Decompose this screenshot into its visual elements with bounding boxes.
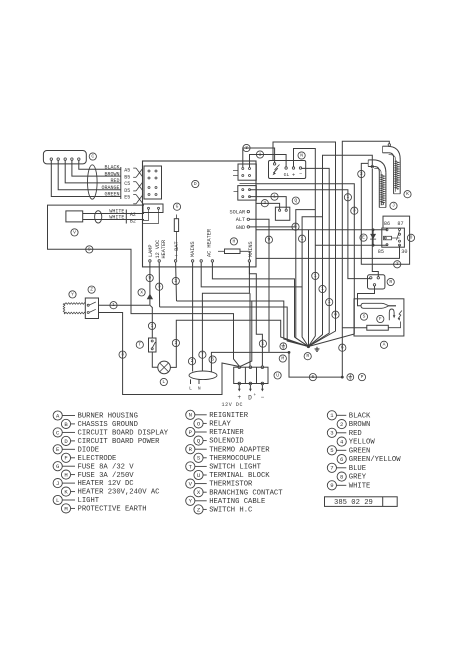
svg-text:THERMO ADAPTER: THERMO ADAPTER: [209, 446, 270, 454]
svg-text:R: R: [389, 279, 392, 285]
svg-text:9: 9: [148, 275, 151, 281]
svg-text:BURNER HOUSING: BURNER HOUSING: [78, 413, 138, 421]
svg-text:7: 7: [201, 352, 204, 358]
svg-text:ORANGE: ORANGE: [101, 185, 119, 191]
svg-text:F: F: [64, 455, 67, 462]
svg-text:GREEN: GREEN: [349, 447, 371, 455]
svg-text:T: T: [138, 342, 141, 348]
svg-text:+ BAT: + BAT: [174, 241, 180, 257]
svg-text:H: H: [233, 238, 236, 244]
svg-text:B2: B2: [130, 219, 136, 225]
svg-text:F: F: [379, 316, 382, 322]
svg-text:1: 1: [262, 340, 265, 346]
svg-text:GREEN: GREEN: [104, 192, 119, 198]
svg-text:85: 85: [378, 249, 384, 255]
svg-text:ALT: ALT: [236, 217, 245, 223]
svg-text:6: 6: [211, 356, 214, 362]
svg-text:H: H: [64, 472, 67, 479]
svg-text:3: 3: [158, 284, 161, 290]
svg-text:3: 3: [330, 430, 333, 437]
svg-text:M: M: [64, 505, 67, 512]
svg-text:BLACK: BLACK: [104, 165, 119, 171]
svg-text:6: 6: [341, 345, 344, 351]
svg-text:L: L: [56, 497, 59, 504]
svg-text:D: D: [248, 394, 252, 401]
svg-text:Z: Z: [90, 286, 93, 292]
svg-text:FUSE 3A /250V: FUSE 3A /250V: [78, 472, 135, 480]
svg-text:9: 9: [268, 237, 271, 243]
svg-text:HEATER: HEATER: [161, 240, 167, 259]
svg-text:9: 9: [88, 246, 91, 252]
svg-text:D5: D5: [124, 188, 130, 194]
svg-text:L: L: [189, 385, 192, 391]
svg-text:2: 2: [340, 421, 343, 428]
svg-text:BRANCHING CONTACT: BRANCHING CONTACT: [209, 489, 283, 497]
svg-text:385 02 29: 385 02 29: [334, 499, 373, 507]
svg-text:L: L: [162, 379, 165, 385]
svg-text:SOLENOID: SOLENOID: [209, 438, 244, 446]
svg-text:RETAINER: RETAINER: [209, 429, 244, 437]
svg-text:3: 3: [245, 145, 248, 151]
svg-text:−: −: [261, 394, 265, 401]
svg-text:J: J: [392, 203, 395, 209]
svg-text:8: 8: [340, 474, 343, 481]
svg-text:MAINS: MAINS: [248, 241, 254, 257]
svg-text:D: D: [194, 181, 197, 187]
svg-text:3: 3: [396, 261, 399, 267]
svg-text:M: M: [281, 355, 284, 361]
svg-text:GND: GND: [236, 225, 245, 231]
svg-text:+: +: [253, 393, 256, 398]
svg-text:CHASSIS GROUND: CHASSIS GROUND: [78, 421, 138, 429]
svg-text:N: N: [198, 385, 201, 391]
svg-text:LAMP: LAMP: [148, 245, 154, 257]
svg-text:1: 1: [301, 236, 304, 242]
svg-text:CIRCUIT BOARD POWER: CIRCUIT BOARD POWER: [78, 438, 161, 446]
svg-text:5: 5: [330, 447, 333, 454]
svg-text:WHITE: WHITE: [349, 482, 371, 490]
svg-text:TERMINAL BLOCK: TERMINAL BLOCK: [209, 472, 270, 480]
svg-text:BLACK: BLACK: [349, 412, 371, 420]
svg-text:Q: Q: [294, 197, 297, 203]
svg-text:N: N: [189, 412, 192, 419]
svg-text:3: 3: [360, 171, 363, 177]
svg-text:A: A: [383, 342, 386, 348]
svg-text:THERMOCOUPLE: THERMOCOUPLE: [209, 455, 261, 463]
svg-text:A5: A5: [124, 168, 130, 174]
svg-text:K: K: [406, 191, 409, 197]
svg-text:HEATER 230V,240V AC: HEATER 230V,240V AC: [78, 489, 161, 497]
svg-text:86: 86: [384, 221, 390, 227]
svg-text:3: 3: [353, 208, 356, 214]
svg-text:1: 1: [347, 194, 350, 200]
svg-text:YELLOW: YELLOW: [349, 439, 376, 447]
svg-text:2: 2: [191, 358, 194, 364]
svg-text:87: 87: [397, 221, 403, 227]
svg-text:RELAY: RELAY: [209, 421, 231, 429]
svg-text:1: 1: [328, 299, 331, 305]
svg-text:J: J: [56, 480, 59, 487]
svg-text:Y: Y: [71, 291, 74, 297]
svg-text:7: 7: [330, 465, 333, 472]
svg-text:ELECTRODE: ELECTRODE: [78, 455, 117, 463]
svg-text:6: 6: [340, 456, 343, 463]
svg-text:−: −: [299, 171, 302, 177]
svg-text:3: 3: [263, 200, 266, 206]
svg-text:1: 1: [151, 323, 154, 329]
svg-text:B5: B5: [124, 174, 130, 180]
svg-text:30: 30: [401, 249, 407, 255]
svg-text:6: 6: [312, 374, 315, 380]
svg-text:HEATER 12V DC: HEATER 12V DC: [78, 480, 135, 488]
svg-text:HEATING CABLE: HEATING CABLE: [209, 498, 265, 506]
svg-text:P: P: [361, 374, 364, 380]
svg-text:8: 8: [334, 312, 337, 318]
svg-text:G: G: [176, 204, 179, 210]
svg-text:GREEN/YELLOW: GREEN/YELLOW: [349, 456, 401, 464]
svg-text:REIGNITER: REIGNITER: [209, 412, 249, 420]
svg-text:9: 9: [330, 482, 333, 489]
svg-text:+: +: [237, 394, 241, 401]
svg-text:DIODE: DIODE: [78, 446, 100, 454]
svg-text:1: 1: [273, 193, 276, 199]
svg-text:12V DC: 12V DC: [222, 402, 244, 408]
svg-text:C: C: [91, 153, 94, 159]
svg-text:E: E: [362, 234, 365, 240]
svg-text:U: U: [197, 472, 200, 479]
svg-text:RED: RED: [110, 178, 119, 184]
svg-text:AC HEATER: AC HEATER: [207, 229, 213, 257]
svg-text:U: U: [276, 372, 279, 378]
svg-text:BLUE: BLUE: [349, 465, 366, 473]
svg-text:GREY: GREY: [349, 474, 367, 482]
svg-text:THERMISTOR: THERMISTOR: [209, 481, 253, 489]
svg-text:3: 3: [174, 278, 177, 284]
svg-text:MAINS: MAINS: [190, 241, 196, 257]
svg-text:E5: E5: [124, 195, 130, 201]
svg-text:1: 1: [259, 151, 262, 157]
svg-text:3: 3: [175, 340, 178, 346]
svg-text:R: R: [306, 353, 309, 359]
svg-text:1: 1: [314, 273, 317, 279]
svg-text:V: V: [73, 229, 76, 235]
svg-text:S: S: [363, 313, 366, 319]
svg-text:+: +: [292, 172, 295, 178]
svg-text:C5: C5: [124, 181, 130, 187]
svg-text:N: N: [300, 152, 303, 158]
svg-text:RED: RED: [349, 430, 362, 438]
svg-text:SWITCH H.C: SWITCH H.C: [209, 507, 253, 515]
svg-text:A2: A2: [130, 212, 136, 218]
svg-text:1: 1: [112, 302, 115, 308]
svg-text:LIGHT: LIGHT: [78, 497, 100, 505]
svg-text:SOLAR: SOLAR: [230, 210, 246, 216]
svg-text:3: 3: [121, 351, 124, 357]
svg-text:O: O: [410, 235, 413, 241]
svg-text:BROWN: BROWN: [104, 171, 119, 177]
svg-text:BROWN: BROWN: [349, 421, 371, 429]
svg-text:PROTECTIVE EARTH: PROTECTIVE EARTH: [78, 506, 147, 514]
svg-text:X: X: [140, 289, 143, 295]
svg-text:FUSE 8A /32 V: FUSE 8A /32 V: [78, 463, 135, 471]
svg-text:WHITE: WHITE: [109, 215, 124, 221]
svg-text:CIRCUIT BOARD DISPLAY: CIRCUIT BOARD DISPLAY: [78, 430, 169, 438]
svg-text:GL: GL: [284, 172, 290, 178]
svg-text:1: 1: [321, 286, 324, 292]
svg-text:SWITCH LIGHT: SWITCH LIGHT: [209, 464, 261, 472]
